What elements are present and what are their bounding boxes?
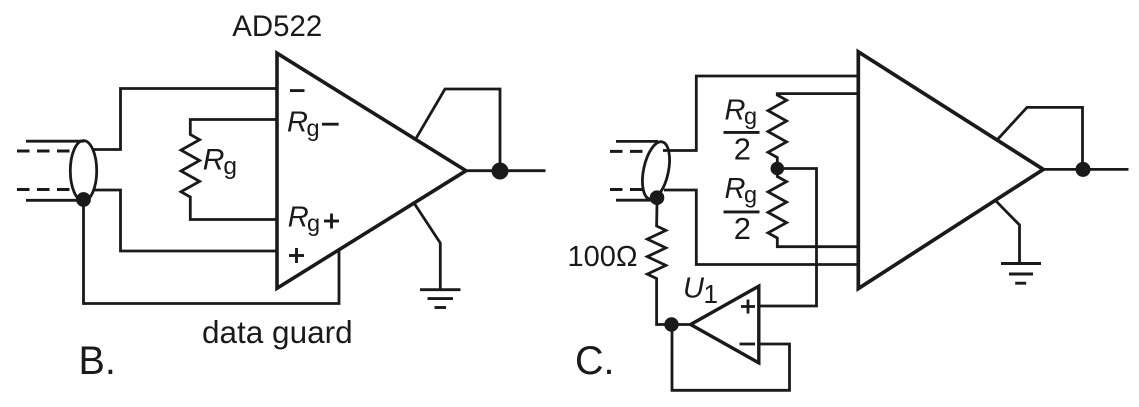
svg-text:R: R	[203, 144, 225, 177]
svg-text:C.: C.	[575, 339, 615, 383]
svg-text:2: 2	[734, 211, 751, 246]
svg-text:B.: B.	[79, 339, 116, 383]
svg-text:R: R	[287, 106, 308, 138]
svg-text:g: g	[223, 153, 237, 180]
svg-text:data guard: data guard	[202, 314, 353, 350]
svg-text:1: 1	[704, 279, 718, 309]
svg-text:2: 2	[734, 132, 751, 167]
svg-text:R: R	[725, 173, 746, 205]
svg-text:R: R	[288, 202, 309, 234]
svg-text:R: R	[725, 94, 746, 126]
svg-text:100Ω: 100Ω	[568, 241, 638, 273]
svg-text:g: g	[307, 210, 320, 236]
svg-text:AD522: AD522	[232, 10, 322, 43]
svg-text:g: g	[307, 115, 320, 141]
svg-text:g: g	[744, 103, 757, 129]
svg-text:g: g	[744, 182, 757, 208]
svg-text:U: U	[683, 272, 705, 304]
